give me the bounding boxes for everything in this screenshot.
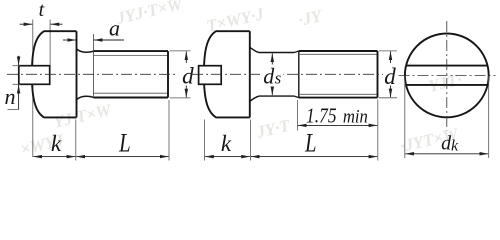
screw2 thread start line (298, 51, 300, 98)
screw2 thread crest top (299, 50, 378, 52)
screw2 shank bottom (259, 95, 294, 97)
head circle (405, 34, 489, 118)
screw2 end extension line (377, 100, 379, 161)
dimension d (screw2) extension lines (379, 50, 397, 52)
dimension ds arrows (271, 53, 273, 66)
screw2 taper to thread bottom (294, 96, 299, 98)
svg-text:k: k (451, 138, 459, 155)
dimension L (screw2) (251, 156, 377, 158)
L1 right extension line (168, 100, 170, 161)
svg-text:k: k (221, 131, 232, 156)
dk left extension line (404, 76, 406, 158)
k2 left extension line (204, 120, 206, 161)
screw2 centerline (192, 73, 383, 75)
horizontal centerline (399, 74, 496, 76)
screw1 thread crest bottom (94, 97, 169, 99)
dimension n leader (8, 109, 19, 111)
screw1 under-head runout curve bottom (77, 96, 94, 100)
screw1 end face (167, 51, 169, 97)
dimension 1.75 min (298, 124, 377, 126)
dimension dk (405, 153, 488, 155)
svg-text:d: d (384, 64, 396, 89)
dimension ds label (262, 65, 284, 87)
screw2 end face (377, 51, 379, 98)
screw2 taper to thread top (294, 51, 299, 53)
svg-text:1.75: 1.75 (306, 104, 337, 128)
screw2 thread root bottom (299, 93, 378, 95)
screw2 thread crest bottom (299, 97, 378, 99)
svg-text:L: L (118, 129, 130, 158)
screw1 head outline (32, 31, 77, 117)
screw2 slot (side view) (199, 66, 222, 85)
screw2 shank top (259, 52, 294, 54)
svg-text:s: s (275, 68, 281, 87)
svg-text:a: a (109, 16, 120, 41)
dimension L (screw1) (76, 156, 168, 158)
1.75 min extension line (297, 100, 299, 131)
t right extension line (slot bottom) (49, 20, 51, 67)
svg-text:d: d (182, 64, 194, 89)
svg-text:d: d (263, 63, 275, 88)
screw2 head outline (204, 31, 250, 117)
slot edge bottom (406, 84, 487, 86)
screw1 thread root bottom (94, 92, 169, 94)
screw1 centerline (7, 73, 177, 75)
t left extension line (tangent of head crown, runs to k dim) (32, 20, 34, 158)
dimension a (63, 39, 76, 41)
svg-text:t: t (39, 0, 45, 21)
svg-text:L: L (304, 129, 316, 158)
screw2 thread root top (299, 53, 378, 55)
dimension d (screw1) extension lines (170, 50, 191, 52)
dk right extension line (488, 76, 490, 158)
dimension k (screw1) (33, 156, 75, 158)
screw1 thread start / a extension line (93, 34, 95, 98)
dimension d (screw2) arrows (390, 51, 392, 63)
svg-text:min: min (343, 107, 368, 128)
screw1 thread root top (94, 55, 169, 57)
screw1 under-head runout curve top (77, 49, 94, 53)
dimension t (20, 23, 33, 25)
dimension n arrows (18, 56, 20, 65)
screw2 neck curve bottom (250, 96, 259, 101)
slot edge top (406, 65, 487, 67)
svg-text:n: n (5, 84, 16, 109)
screw1 slot (side view) (19, 66, 50, 85)
k2 right extension line (249, 120, 251, 161)
vertical centerline (446, 21, 448, 131)
watermark (19, 0, 464, 159)
screw2 neck curve top (250, 47, 259, 52)
dimension k (screw2) (205, 156, 250, 158)
dimension n extension lines (13, 65, 21, 67)
svg-text:k: k (51, 131, 62, 156)
screw1 thread crest top (94, 50, 169, 52)
k1 right extension line (75, 120, 77, 161)
dimension d (screw1) arrows (185, 51, 187, 63)
